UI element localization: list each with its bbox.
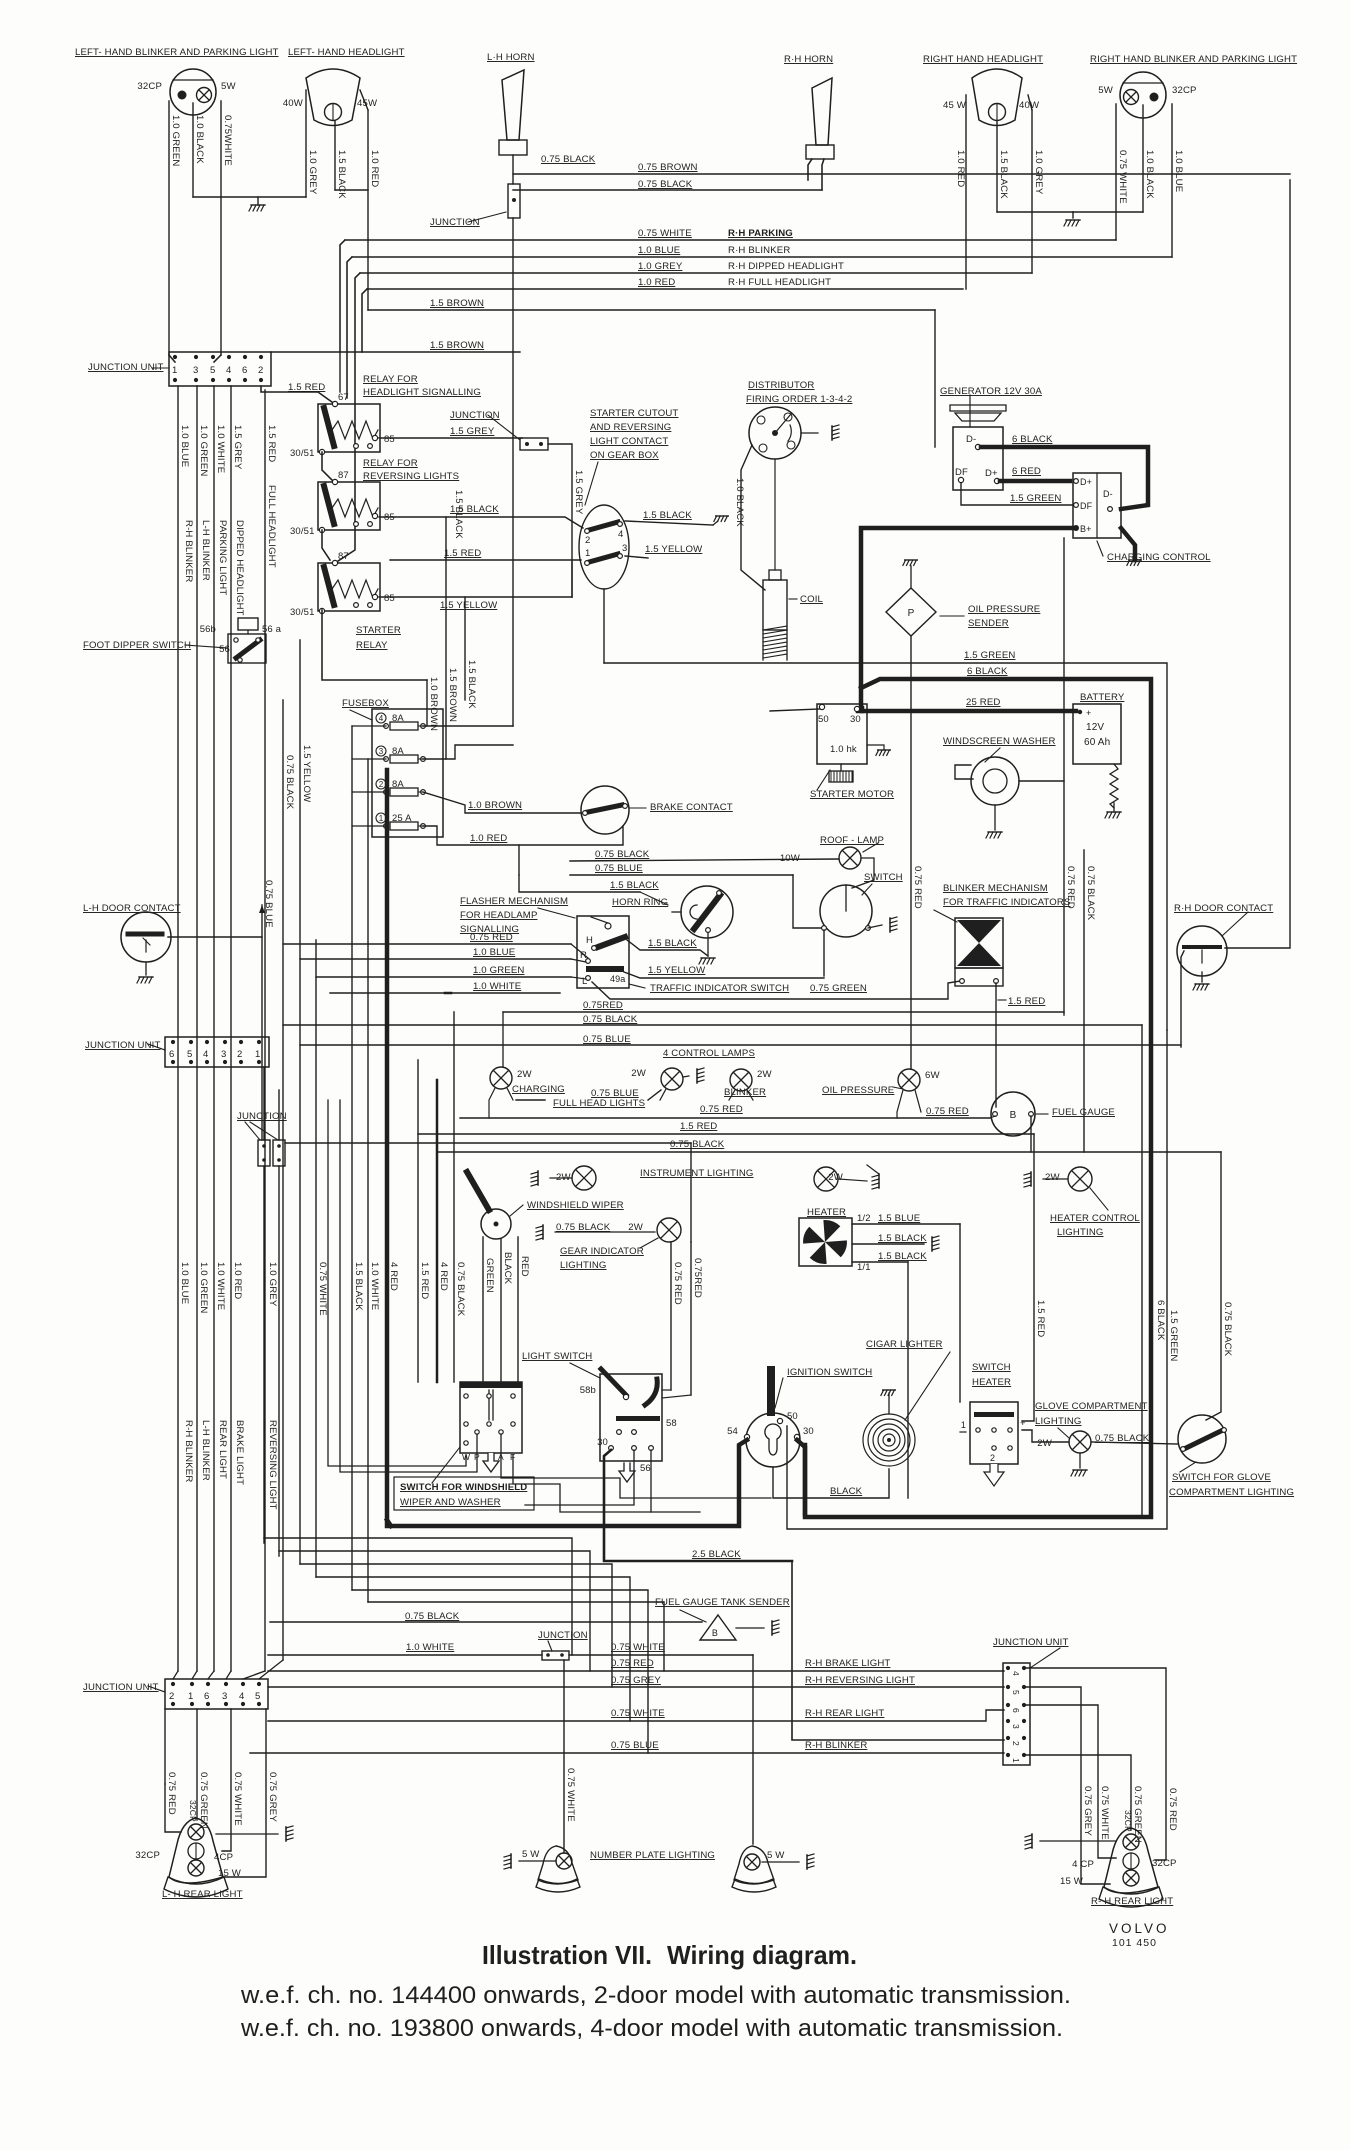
svg-text:1.5 YELLOW: 1.5 YELLOW xyxy=(440,600,498,611)
svg-text:1: 1 xyxy=(585,548,590,559)
junction unit 4 pin 2 right xyxy=(1022,1736,1026,1740)
junction unit 2 pin 3 upper xyxy=(223,1040,227,1044)
svg-text:R-H BLINKER: R-H BLINKER xyxy=(805,1740,867,1751)
leader arrow xyxy=(940,615,964,617)
switch: brake contact xyxy=(581,786,629,834)
wire 1.5 black trunk xyxy=(351,726,353,1590)
fuse 2 8A xyxy=(376,779,386,789)
svg-text:54: 54 xyxy=(727,1426,738,1437)
wire 1.5 red junction to relay 67 xyxy=(261,386,332,402)
wire 0.75 white xyxy=(222,1709,231,1851)
svg-text:30/51: 30/51 xyxy=(290,607,315,618)
svg-text:STARTER MOTOR: STARTER MOTOR xyxy=(810,789,894,800)
svg-text:RELAY FOR: RELAY FOR xyxy=(363,374,418,385)
headlight bulb xyxy=(325,104,342,121)
svg-text:0.75 BLACK: 0.75 BLACK xyxy=(1085,866,1096,921)
junction unit 4 pin 1 right xyxy=(1022,1753,1026,1757)
svg-text:4CP: 4CP xyxy=(214,1852,233,1863)
leader xyxy=(1030,1648,1060,1668)
svg-text:+: + xyxy=(1086,708,1091,718)
wire 0.75 red oil sender down xyxy=(910,636,912,1069)
wire black ignition to cigar lighter xyxy=(773,1467,889,1498)
washer pump inlet xyxy=(955,765,973,779)
svg-text:87: 87 xyxy=(338,551,349,562)
wire door contact ground xyxy=(145,962,147,975)
wire 0.75 black vertical xyxy=(453,1012,455,1382)
ground R-H rear light xyxy=(1025,1834,1032,1849)
wire R-H horn to 0.75 brown xyxy=(808,159,812,180)
svg-text:0.75 RED: 0.75 RED xyxy=(700,1104,743,1115)
terminal 85 xyxy=(372,594,377,599)
junction unit 3 pin 1 upper xyxy=(190,1682,194,1686)
wire light switch 56 run xyxy=(525,1450,634,1505)
horn: L-H horn xyxy=(502,70,524,140)
svg-text:D+: D+ xyxy=(1080,477,1092,487)
wire to right number plate light xyxy=(752,1655,754,1844)
wire bundle into junction unit 3 xyxy=(208,1671,214,1679)
svg-text:30/51: 30/51 xyxy=(290,526,315,537)
svg-text:1.5 GREEN: 1.5 GREEN xyxy=(1010,493,1061,504)
leader xyxy=(775,1378,783,1408)
svg-text:REVERSING LIGHTS: REVERSING LIGHTS xyxy=(363,471,459,482)
junction block B xyxy=(273,1140,285,1166)
svg-text:1.0 hk: 1.0 hk xyxy=(830,744,857,755)
junction unit 4 pin 6 left xyxy=(1006,1703,1010,1707)
leader junction unit 1 xyxy=(152,367,169,369)
svg-text:101 450: 101 450 xyxy=(1112,1937,1157,1949)
junction unit 3 (bottom left) xyxy=(165,1679,268,1709)
svg-text:2: 2 xyxy=(258,365,263,376)
svg-text:R·H DOOR CONTACT: R·H DOOR CONTACT xyxy=(1174,903,1273,914)
svg-text:0.75 RED: 0.75 RED xyxy=(912,866,923,909)
terminal 30/51 xyxy=(319,527,324,532)
leader starter cutout xyxy=(585,462,598,505)
wire 0.75 red xyxy=(164,1709,166,1784)
junction unit 3 pin 4 upper xyxy=(241,1682,245,1686)
gear indicator lamp xyxy=(657,1218,681,1242)
bulb 15W xyxy=(1123,1870,1139,1886)
svg-text:ON GEAR BOX: ON GEAR BOX xyxy=(590,450,659,461)
junction block mid xyxy=(520,438,548,450)
terminal 85 xyxy=(372,435,377,440)
lamp leg xyxy=(489,1088,495,1118)
wire 0.75 green to blinker mechanism xyxy=(592,981,960,999)
ground windscreen washer xyxy=(986,832,1002,838)
svg-text:56 a: 56 a xyxy=(262,624,282,635)
svg-text:LIGHT CONTACT: LIGHT CONTACT xyxy=(590,436,668,447)
svg-text:FOR TRAFFIC INDICATORS: FOR TRAFFIC INDICATORS xyxy=(943,897,1071,908)
coil body xyxy=(763,580,787,630)
bulb 5W right blinker xyxy=(1124,90,1139,105)
svg-text:STARTER CUTOUT: STARTER CUTOUT xyxy=(590,408,678,419)
wire 1.5 yellow trunk xyxy=(299,640,301,1564)
svg-text:FIRING ORDER 1-3-4-2: FIRING ORDER 1-3-4-2 xyxy=(746,394,852,405)
heater control lighting lamp xyxy=(1068,1167,1092,1191)
svg-text:1.0 WHITE: 1.0 WHITE xyxy=(473,981,521,992)
contact bar xyxy=(1184,945,1220,949)
svg-text:1.5 YELLOW: 1.5 YELLOW xyxy=(645,544,703,555)
svg-text:30: 30 xyxy=(597,1437,608,1448)
ground cigar lighter xyxy=(881,1390,895,1395)
wire 0.75 white xyxy=(569,1654,753,1656)
wire into light switch 2 xyxy=(662,1395,691,1398)
wire 0.75 grey r-h reversing light xyxy=(268,1686,1004,1688)
wire into junction unit 1 terminal 5 xyxy=(214,355,221,362)
distributor rotor center xyxy=(772,430,778,436)
wire 1.0 brown into fusebox xyxy=(426,680,428,726)
fuse 3 8A xyxy=(376,746,386,756)
wire 0.75 brown horns xyxy=(513,173,1290,175)
svg-text:2W: 2W xyxy=(1037,1438,1052,1449)
fuse element 3 xyxy=(390,755,418,763)
svg-text:5: 5 xyxy=(1011,1690,1021,1695)
wire 1.0 brown fuse2 to brake contact xyxy=(423,792,581,813)
svg-text:6: 6 xyxy=(204,1691,209,1702)
svg-text:1.5 RED: 1.5 RED xyxy=(680,1121,717,1132)
junction unit 2 pin 5 lower xyxy=(189,1060,193,1064)
ground xyxy=(876,750,890,755)
terminal 30/51 xyxy=(319,608,324,613)
svg-text:1.0 BLUE: 1.0 BLUE xyxy=(1173,150,1184,192)
pin 1 xyxy=(585,561,590,566)
lamp unit: right hand headlight xyxy=(972,69,1022,126)
leader xyxy=(905,1352,950,1420)
svg-text:1: 1 xyxy=(961,1420,966,1430)
wire 0.75 red to fuel gauge xyxy=(460,1117,990,1119)
wire washer to 0.75 red run xyxy=(1019,780,1064,782)
svg-text:BRAKE CONTACT: BRAKE CONTACT xyxy=(650,802,733,813)
rotor arm xyxy=(775,414,791,433)
wire 0.75 black horns xyxy=(513,189,822,191)
junction unit 4 pin 5 right xyxy=(1022,1685,1026,1689)
relay: starter relay xyxy=(318,563,380,611)
svg-text:3: 3 xyxy=(193,365,198,376)
svg-text:10W: 10W xyxy=(780,853,801,864)
wire 1.5 grey to gearbox contact xyxy=(548,444,572,597)
svg-text:1.0 WHITE: 1.0 WHITE xyxy=(369,1262,380,1310)
wire ground to rear light xyxy=(1040,1840,1116,1842)
svg-text:0.75 BLUE: 0.75 BLUE xyxy=(611,1740,659,1751)
wire 0.75 white xyxy=(220,101,222,355)
svg-text:R·H PARKING: R·H PARKING xyxy=(728,228,793,239)
wire 1.5 black relay2 85 to gearbox contact xyxy=(379,517,583,528)
relay: reversing lights xyxy=(318,482,380,530)
wire down from horn junction to fusebox xyxy=(512,218,514,726)
svg-text:0.75RED: 0.75RED xyxy=(692,1258,703,1298)
svg-text:Wiring diagram.: Wiring diagram. xyxy=(667,1940,857,1970)
wire 0.75 red to flasher xyxy=(283,943,571,945)
wire 0.75 blue mid run xyxy=(300,1044,1181,1046)
wire relay3 30/51 down xyxy=(322,610,427,680)
svg-text:RIGHT HAND HEADLIGHT: RIGHT HAND HEADLIGHT xyxy=(923,54,1043,65)
svg-text:LIGHTING: LIGHTING xyxy=(1057,1227,1104,1238)
terminal D- xyxy=(975,444,980,449)
svg-text:0.75WHITE: 0.75WHITE xyxy=(222,115,233,166)
wire 0.75 red gear lamp down xyxy=(670,1242,672,1390)
svg-text:1.0 GREY: 1.0 GREY xyxy=(638,261,683,272)
switch pin xyxy=(845,885,847,911)
bulb 32CP xyxy=(1123,1834,1139,1850)
ground left lamps xyxy=(249,205,265,211)
wire fuel gauge down xyxy=(1030,1116,1032,1152)
svg-text:5W: 5W xyxy=(221,81,236,92)
svg-text:0.75RED: 0.75RED xyxy=(583,1000,623,1011)
svg-text:CHARGING CONTROL: CHARGING CONTROL xyxy=(1107,552,1211,563)
svg-text:JUNCTION UNIT: JUNCTION UNIT xyxy=(83,1682,159,1693)
junction unit 2 (middle left) xyxy=(165,1037,269,1067)
svg-text:85: 85 xyxy=(384,593,395,604)
svg-text:67: 67 xyxy=(338,392,349,403)
junction unit 1 pin 1 upper xyxy=(173,355,177,359)
svg-text:2: 2 xyxy=(585,535,590,546)
svg-text:CHARGING: CHARGING xyxy=(512,1084,565,1095)
svg-text:1.0 GREEN: 1.0 GREEN xyxy=(170,115,181,166)
terminal 85 xyxy=(372,513,377,518)
svg-text:12V: 12V xyxy=(1086,722,1104,733)
wire 0.75 blue r-h blinker xyxy=(250,1752,1004,1754)
svg-text:1.5 BLACK: 1.5 BLACK xyxy=(648,938,697,949)
wire junction block A down xyxy=(263,1166,265,1543)
junction unit 2 pin 1 upper xyxy=(257,1040,261,1044)
charging control regulator xyxy=(1073,473,1121,538)
svg-text:87: 87 xyxy=(338,470,349,481)
svg-text:JUNCTION: JUNCTION xyxy=(430,217,480,228)
wire junction block B down xyxy=(278,1166,280,1556)
junction unit 2 pin 2 lower xyxy=(239,1060,243,1064)
wire loop D xyxy=(316,1577,630,1721)
wire 0.75 white xyxy=(1024,1705,1116,1858)
terminal DF xyxy=(958,477,963,482)
svg-text:1.0 GREY: 1.0 GREY xyxy=(307,150,318,195)
svg-text:0.75 WHITE: 0.75 WHITE xyxy=(565,1768,576,1822)
foot dipper pedal xyxy=(238,618,258,630)
wire wiper switch P xyxy=(340,1100,477,1472)
svg-text:FLASHER MECHANISM: FLASHER MECHANISM xyxy=(460,896,568,907)
svg-text:INSTRUMENT LIGHTING: INSTRUMENT LIGHTING xyxy=(640,1168,754,1179)
svg-text:R-H BRAKE LIGHT: R-H BRAKE LIGHT xyxy=(805,1658,890,1669)
relay coil xyxy=(332,580,378,598)
svg-text:1.0 GREY: 1.0 GREY xyxy=(267,1262,278,1307)
wire 1.5 black from headlight xyxy=(334,121,336,190)
svg-text:OIL PRESSURE: OIL PRESSURE xyxy=(968,604,1040,615)
wire to block B xyxy=(278,1090,280,1140)
svg-text:D-: D- xyxy=(1103,489,1113,499)
svg-text:0.75 BLACK: 0.75 BLACK xyxy=(455,1262,466,1317)
svg-text:1.5 BLUE: 1.5 BLUE xyxy=(878,1213,920,1224)
svg-text:4: 4 xyxy=(618,529,623,540)
svg-text:2W: 2W xyxy=(517,1069,532,1080)
ground heater xyxy=(932,1236,939,1251)
svg-text:2: 2 xyxy=(169,1691,174,1702)
junction unit 1 pin 4 lower xyxy=(227,378,231,382)
wire 1.5 brown down to generator area xyxy=(934,310,936,447)
wire loop F xyxy=(368,1602,664,1671)
terminal 87 xyxy=(332,479,337,484)
svg-text:6W: 6W xyxy=(925,1070,940,1081)
svg-text:2W: 2W xyxy=(1045,1172,1060,1183)
junction unit 3 pin 6 upper xyxy=(206,1682,210,1686)
svg-text:1: 1 xyxy=(1011,1758,1021,1763)
svg-text:0.75 WHITE: 0.75 WHITE xyxy=(638,228,692,239)
junction unit 1 pin 3 upper xyxy=(194,355,198,359)
leader junction xyxy=(468,212,506,222)
svg-text:B: B xyxy=(712,1628,718,1638)
wire 1.5 brown xyxy=(368,309,935,311)
wire 6 red generator D+ heavy xyxy=(1000,479,1070,484)
junction unit 4 pin 3 left xyxy=(1006,1719,1010,1723)
svg-text:1.0 RED: 1.0 RED xyxy=(369,150,380,187)
svg-text:1.5 BLACK: 1.5 BLACK xyxy=(878,1251,927,1262)
ground R-H door contact xyxy=(1193,984,1209,990)
wire to terminal 50 xyxy=(770,709,820,711)
svg-text:0.75 GREY: 0.75 GREY xyxy=(611,1675,661,1686)
wire 1.0 grey from headlight xyxy=(305,90,307,197)
svg-text:58: 58 xyxy=(666,1418,677,1429)
svg-text:45 W: 45 W xyxy=(943,100,967,111)
svg-text:GENERATOR 12V 30A: GENERATOR 12V 30A xyxy=(940,386,1042,397)
wire 0.75 red 2 xyxy=(690,1242,692,1395)
svg-text:1.5 BLACK: 1.5 BLACK xyxy=(466,660,477,709)
terminal 30 xyxy=(854,706,859,711)
wire 1.5 black stub xyxy=(464,597,466,700)
svg-text:RELAY FOR: RELAY FOR xyxy=(363,458,418,469)
svg-text:0.75 BLACK: 0.75 BLACK xyxy=(541,154,596,165)
svg-text:FULL HEAD LIGHTS: FULL HEAD LIGHTS xyxy=(553,1098,645,1109)
svg-text:30/51: 30/51 xyxy=(290,448,315,459)
wire 1.0 black from left parking xyxy=(192,103,194,197)
svg-text:GREEN: GREEN xyxy=(484,1258,495,1293)
svg-text:CIGAR LIGHTER: CIGAR LIGHTER xyxy=(866,1339,943,1350)
wire 0.75 white r-h rear light xyxy=(268,1710,1004,1721)
horn: R-H horn xyxy=(812,78,832,145)
svg-text:3: 3 xyxy=(379,747,384,756)
wire red wiper xyxy=(517,1237,519,1382)
svg-text:L-H BLINKER: L-H BLINKER xyxy=(200,520,211,581)
terminal H xyxy=(592,946,597,951)
wire roof lamp to switch xyxy=(852,858,874,888)
junction unit 3 pin 1 lower xyxy=(190,1702,194,1706)
junction unit 2 pin 3 lower xyxy=(223,1060,227,1064)
junction unit 2 pin 1 lower xyxy=(257,1060,261,1064)
wire 0.75 red vertical right xyxy=(1063,538,1065,1015)
junction unit 3 pin 3 lower xyxy=(224,1702,228,1706)
svg-text:JUNCTION UNIT: JUNCTION UNIT xyxy=(993,1637,1069,1648)
wire 1.5 red to pin 1 xyxy=(390,559,581,561)
svg-text:R-H REAR LIGHT: R-H REAR LIGHT xyxy=(805,1708,884,1719)
wire 1.0 green to flasher xyxy=(316,976,571,978)
wire 1.5 brown junction unit to horn wire xyxy=(271,351,520,353)
ground instrument lamp 1 xyxy=(531,1171,538,1186)
svg-text:DF: DF xyxy=(1080,501,1093,511)
ground distributor xyxy=(832,425,839,440)
svg-text:0.75 BLUE: 0.75 BLUE xyxy=(263,880,274,928)
switch: glove compartment lighting switch xyxy=(1178,1415,1226,1463)
wire heavy joint xyxy=(860,708,865,711)
junction unit 3 pin 2 lower xyxy=(171,1702,175,1706)
svg-text:4 CONTROL LAMPS: 4 CONTROL LAMPS xyxy=(663,1048,755,1059)
svg-text:WINDSCREEN WASHER: WINDSCREEN WASHER xyxy=(943,736,1056,747)
wire 1.5 red to switch heater xyxy=(1022,1134,1034,1421)
wire glove lamp to heater switch + xyxy=(1022,1430,1069,1442)
wire 0.75 red vertical upper xyxy=(690,1143,692,1242)
svg-text:IGNITION SWITCH: IGNITION SWITCH xyxy=(787,1367,872,1378)
lamp unit: left-hand blinker and parking light xyxy=(170,69,216,115)
wire into junction unit 3 pin 5 xyxy=(259,1660,283,1679)
leader roof lamp xyxy=(863,843,878,852)
wire to ground xyxy=(801,432,818,434)
leader xyxy=(1090,1188,1108,1210)
wire junction blocks to gear lamp feed xyxy=(285,1142,691,1144)
svg-text:6 BLACK: 6 BLACK xyxy=(1012,434,1053,445)
wire 1.0 white xyxy=(330,992,560,994)
svg-text:RIGHT HAND BLINKER AND PARKING: RIGHT HAND BLINKER AND PARKING LIGHT xyxy=(1090,54,1297,65)
svg-text:+: + xyxy=(1020,1418,1026,1429)
wire 0.75 black to roof lamp xyxy=(570,859,839,861)
fuse left stub xyxy=(352,791,386,793)
svg-text:Illustration VII.: Illustration VII. xyxy=(482,1940,652,1970)
svg-text:FUSEBOX: FUSEBOX xyxy=(342,698,389,709)
wire 1.5 black heater 2 xyxy=(852,1261,908,1263)
wire into light switch xyxy=(662,1389,671,1391)
wire 1.5 red reversing trunk xyxy=(264,390,266,1671)
svg-text:0.75 GREY: 0.75 GREY xyxy=(1082,1786,1093,1836)
svg-text:1.5 YELLOW: 1.5 YELLOW xyxy=(301,745,312,803)
wire 1.0 black distributor to coil xyxy=(741,445,765,590)
junction unit 4 pin 5 left xyxy=(1006,1685,1010,1689)
terminal 50 xyxy=(777,1418,782,1423)
junction unit 3 pin 2 upper xyxy=(171,1682,175,1686)
terminal 50 xyxy=(819,704,824,709)
wire 0.75 red to charging lamp xyxy=(502,1012,504,1067)
svg-text:2: 2 xyxy=(237,1049,242,1060)
svg-text:PARKING LIGHT: PARKING LIGHT xyxy=(217,520,228,595)
svg-text:L- H REAR LIGHT: L- H REAR LIGHT xyxy=(162,1889,243,1900)
connector arrow light switch xyxy=(619,1463,635,1482)
wire relay1 30/51 to relay2 87 xyxy=(322,452,332,480)
svg-text:GLOVE COMPARTMENT: GLOVE COMPARTMENT xyxy=(1035,1401,1148,1412)
junction unit 3 pin 4 lower xyxy=(241,1702,245,1706)
ground fuel tank sender xyxy=(772,1620,779,1635)
svg-text:0.75 GREY: 0.75 GREY xyxy=(267,1772,278,1822)
lamp unit: left-hand headlight xyxy=(306,69,360,126)
svg-text:40W: 40W xyxy=(283,98,304,109)
svg-text:w.e.f. ch. no. 193800 onwards,: w.e.f. ch. no. 193800 onwards, 4-door mo… xyxy=(240,2015,1063,2042)
svg-text:STARTER: STARTER xyxy=(356,625,401,636)
lamp unit: right hand blinker and parking light xyxy=(1120,72,1166,118)
junction unit 2 pin 2 upper xyxy=(239,1040,243,1044)
svg-text:SWITCH: SWITCH xyxy=(972,1362,1011,1373)
junction unit 4 pin 2 left xyxy=(1006,1736,1010,1740)
svg-text:5: 5 xyxy=(187,1049,192,1060)
wire 0.75 red r-h brake light xyxy=(268,1670,1004,1672)
wire 0.75 brown to R-H door contact xyxy=(1225,180,1290,948)
svg-text:3: 3 xyxy=(1011,1724,1021,1729)
terminal 87 xyxy=(332,560,337,565)
wire relay2 30/51 to relay3 87 xyxy=(322,530,330,560)
terminal B+ xyxy=(1074,526,1079,531)
junction unit 4 pin 4 left xyxy=(1006,1666,1010,1670)
junction unit 3 pin 5 lower xyxy=(257,1702,261,1706)
wire 1.5 black right headlight xyxy=(996,121,998,212)
wire bundle into junction unit 3 xyxy=(173,1671,178,1679)
svg-text:2: 2 xyxy=(1011,1741,1021,1746)
junction unit 1 pin 4 upper xyxy=(227,355,231,359)
svg-text:1.5 BLACK: 1.5 BLACK xyxy=(643,510,692,521)
svg-text:30: 30 xyxy=(803,1426,814,1437)
leader xyxy=(817,770,830,790)
svg-text:LIGHTING: LIGHTING xyxy=(1035,1416,1082,1427)
wire 4 red heavy trunk xyxy=(385,770,390,1526)
